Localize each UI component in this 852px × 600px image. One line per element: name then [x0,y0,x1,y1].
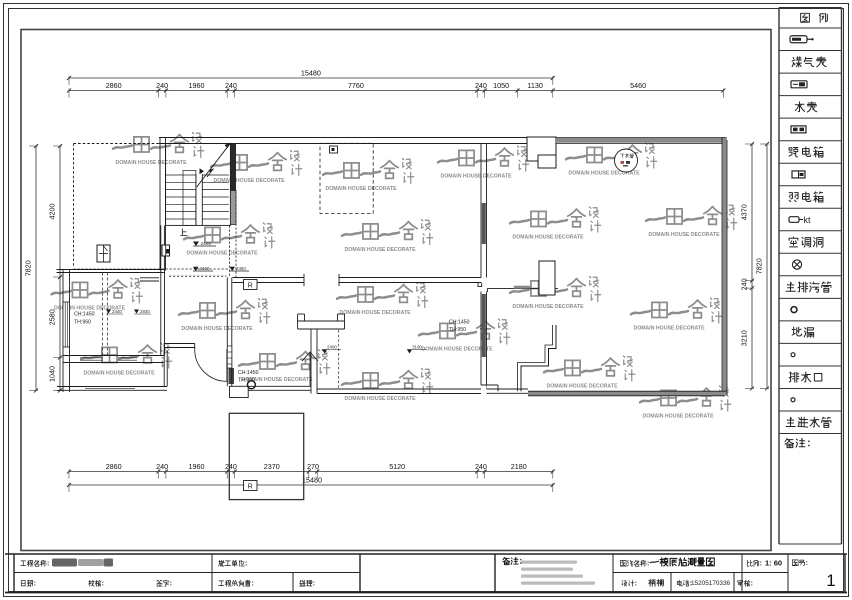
watermark stamp 9 [646,205,737,238]
room1 bottom wall [63,355,165,357]
svg-text:7820: 7820 [24,260,33,276]
dashed box top middle [320,143,373,213]
title 监理 [300,580,305,586]
title 图号 [792,560,798,566]
watermark stamp 2 [211,151,302,184]
wall top main [159,137,527,139]
window wall upper [480,144,482,278]
legend label 主进水管 [786,417,795,426]
title 比例 [747,560,752,566]
title 校核 [89,580,95,586]
svg-text:1: 1 [826,571,835,590]
svg-text:TH:900: TH:900 [238,378,255,384]
watermark stamp 1 [113,133,204,166]
legend table grid [779,7,842,9]
corridor wall left seg [233,277,305,279]
title project name (redacted) [52,559,113,567]
central wall [226,278,228,387]
svg-text:TH:960: TH:960 [74,320,91,326]
level marker hallway [193,242,199,247]
chimney box bottom [539,261,555,295]
svg-text:2860: 2860 [106,81,122,90]
svg-text:1040: 1040 [48,366,57,382]
elec panel symbol in terrace [97,245,110,262]
AC hole slab on stub wall [514,286,530,289]
svg-text:270: 270 [307,462,319,471]
corridor wall right jog [478,283,482,287]
room1 left window [63,302,70,347]
svg-text:2180: 2180 [511,462,527,471]
watermark stamp 17 [342,369,433,402]
svg-text:2930: 2930 [140,309,150,314]
legend label 排水口 [789,372,799,382]
watermark stamp 18 [419,319,510,352]
title block grid [5,553,847,555]
watermark stamp 6 [184,223,275,256]
legend symbol floor drain [791,307,797,313]
stairs up label 上 [181,229,187,235]
dim top overall 15480 [69,77,553,79]
svg-text:7760: 7760 [348,81,364,90]
wall left dashed (terrace) [73,144,75,267]
title 电话 [677,580,682,586]
T wall [298,320,345,322]
legend label 主排污管 [786,282,795,291]
title 工程总负责 [219,581,224,586]
title drawing name 一楼原始测量图 [650,561,659,563]
legend symbol drain outlet [791,353,795,357]
legend label 弱电箱 [789,193,798,202]
door porch leaf and arc [226,349,228,382]
title 签字 [157,580,163,586]
middle bottom wall left [248,385,311,387]
svg-text:CH:1450: CH:1450 [74,312,95,318]
title 备注 label [503,557,510,564]
watermark stamp 15 [631,298,722,331]
watermark stamp 5 [566,143,657,176]
dim left segments [59,146,61,391]
wall stairwell left vertical [159,138,161,271]
legend label 煤气表 [792,57,801,67]
svg-text:1: 60: 1: 60 [765,559,782,568]
stairs section cut diagonal [197,143,231,187]
watermark stamp 19 [544,356,635,389]
watermark stamp 13 [337,283,428,316]
room1 right wall [160,270,162,356]
svg-text:5120: 5120 [389,462,405,471]
svg-text:240: 240 [740,278,749,290]
svg-text:TH:950: TH:950 [449,327,466,333]
wall top dashed (terrace) [74,143,160,145]
svg-text:240: 240 [225,81,237,90]
svg-text:kt: kt [804,215,812,225]
dashed line hallway bottom [74,268,230,270]
title remark small lines [521,561,577,564]
dashed opening right of stairs [229,226,231,278]
svg-text:R: R [248,484,253,491]
door jamb dark rect on central wall [229,368,235,384]
svg-text:15480: 15480 [302,476,322,485]
legend symbol main water inlet [791,398,795,402]
R box on wall [244,280,258,290]
legend symbol strong elec box [791,126,806,133]
watermark stamp 3 [323,159,414,192]
dashed line M2 [338,330,340,389]
svg-text:2860: 2860 [106,462,122,471]
central wall window band [227,346,232,368]
watermark stamp 14 [510,277,601,310]
svg-text:2440: 2440 [112,309,122,314]
window lower band [482,294,486,357]
dim right segments [751,144,753,388]
legend symbol main sewage [792,260,801,269]
svg-text:2460: 2460 [200,266,210,271]
dim bottom overall 15480 [69,484,553,486]
svg-text:240: 240 [156,81,168,90]
watermark stamp 8 [510,207,601,240]
corridor wall right seg [339,277,481,279]
sewage pipe circle symbol [615,149,638,172]
title 审核 [738,580,743,586]
watermark stamp 16 [239,350,330,383]
level marker hallway3 [230,267,236,271]
level marker hallway2 [193,267,199,271]
dim right overall 7820 [766,144,768,388]
room1 dashed interior [102,273,104,356]
hallway-room1 wall stub [140,277,159,279]
svg-text:4200: 4200 [48,204,57,220]
wall below stairs [160,225,162,269]
svg-text:240: 240 [475,462,487,471]
gas meter box on top wall [330,146,338,153]
svg-text:2460: 2460 [236,266,246,271]
room1 left wall [62,270,64,393]
window wall lower [480,292,482,386]
dim bottom segments [69,471,553,473]
legend symbol water meter [791,81,807,88]
legend label 空调洞 [789,237,798,247]
svg-text:15480: 15480 [301,69,321,78]
bottom wall link to gray [487,388,529,390]
title 图纸名称 [620,560,626,566]
dim left overall 7820 [35,146,37,391]
svg-text:1130: 1130 [527,81,542,90]
svg-text:3100: 3100 [412,345,422,350]
watermark stamp 4 [438,146,529,179]
svg-text:240: 240 [156,462,168,471]
svg-text:1960: 1960 [189,81,205,90]
drawing frame [21,30,771,551]
title 施工单位 [219,560,225,566]
legend label 水表 [795,102,804,112]
central wall corner block [230,386,249,397]
svg-text:2460: 2460 [201,241,212,247]
svg-text:7820: 7820 [755,258,764,274]
porch right wall piece [164,343,195,345]
door arrow symbol middle-bottom [302,352,318,361]
dim top segments [69,90,723,92]
watermark stamp 10 [52,278,143,311]
watermark stamp 20 [640,386,731,419]
legend notes 备注 [785,438,794,447]
svg-text:240: 240 [225,462,237,471]
legend symbol weak elec box [792,171,805,178]
title 工程名称 [21,561,26,566]
dashed line hallway bottom2 [169,275,226,277]
door stub wall right room [487,287,558,289]
room M1 level marker [322,350,327,354]
watermark stamp 12 [179,299,270,332]
svg-text:2400: 2400 [327,345,337,350]
room1 top wall [57,269,165,271]
svg-text:3210: 3210 [740,330,749,346]
room M2 level marker [407,350,412,354]
svg-text:240: 240 [475,81,487,90]
svg-text:R: R [248,283,253,290]
svg-text:4370: 4370 [740,204,749,220]
svg-text:5460: 5460 [630,81,646,90]
steps right room [521,325,556,391]
legend label 强电箱 [789,148,798,157]
svg-text:2370: 2370 [264,462,280,471]
svg-text:1960: 1960 [189,462,205,471]
svg-text:15205170336: 15205170336 [691,580,731,587]
svg-text:CH:1450: CH:1450 [449,320,470,326]
weak elec box symbol on wall [162,245,170,256]
wall top right thick gray [556,138,727,143]
R box bottom [244,481,258,491]
wall bottom right thick gray [528,391,727,396]
wall right thick gray [722,138,727,396]
room1 level markers [106,310,111,314]
watermark stamp 11 [81,343,172,376]
legend label 地漏 [792,327,801,336]
middle bottom wall right [317,388,481,390]
watermark stamp 7 [342,220,433,253]
svg-text:2580: 2580 [48,309,57,325]
legend symbol kt AC hole [789,217,803,223]
legend header 图例 [801,13,810,22]
title designer name [649,579,656,586]
porch bottom wall [57,386,167,388]
porch right wall [163,351,165,387]
title 设计 [622,581,627,586]
title 日期 [21,581,25,586]
legend symbol gas meter [790,36,814,43]
window upper band [482,203,486,244]
flue box lower [538,155,556,168]
svg-text:CH:1450: CH:1450 [238,370,259,376]
svg-text:1050: 1050 [493,81,509,90]
floor drain circle M1 [247,381,255,389]
bottom square annex [229,413,303,499]
flue box upper [527,137,556,161]
stairs [166,144,231,226]
